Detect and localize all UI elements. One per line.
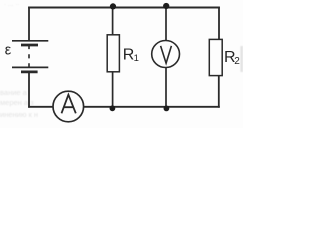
resistor R2 body: [209, 39, 222, 75]
junction node top of voltmeter branch: [163, 3, 169, 9]
wire right vertical lower (R2 to bottom wire): [218, 76, 220, 108]
ammeter A1 circle: [53, 91, 84, 122]
voltmeter letter V: [161, 46, 172, 63]
faint right-edge streak: [240, 46, 243, 72]
wire left vertical lower (battery to bottom wire): [28, 73, 30, 108]
svg-text:1: 1: [134, 53, 139, 64]
junction node bottom of voltmeter branch: [164, 106, 170, 112]
resistor R1 body: [107, 35, 119, 72]
battery cell 2 short plate: [21, 71, 38, 74]
battery cell 1 long plate: [12, 40, 48, 42]
faint background print-through text: [0, 2, 38, 119]
wire R1 branch top: [112, 8, 114, 36]
junction node bottom of R1 branch: [110, 105, 116, 111]
wire left vertical upper (battery to top wire): [28, 7, 30, 41]
wire bottom left (corner to ammeter): [28, 106, 53, 108]
svg-text:ε: ε: [5, 43, 12, 59]
battery dashed connector: [28, 45, 30, 68]
battery cell 2 long plate: [12, 66, 48, 68]
wire bottom right of ammeter: [84, 106, 220, 108]
svg-text:вание а: вание а: [0, 88, 28, 97]
ammeter letter A: [62, 95, 76, 114]
svg-text:· … ··: · … ··: [4, 2, 19, 8]
wire top horizontal: [28, 7, 220, 9]
junction node top of R1 branch: [110, 3, 116, 9]
svg-text:инению к н: инению к н: [0, 110, 38, 119]
voltmeter V circle: [152, 41, 180, 68]
wire voltmeter branch top: [165, 8, 167, 41]
wire voltmeter branch bottom: [165, 68, 167, 107]
svg-text:2: 2: [234, 56, 240, 67]
battery cell 1 short plate: [21, 44, 38, 47]
wire R1 branch bottom: [112, 72, 114, 107]
wire right vertical upper (top wire to R2): [218, 7, 220, 40]
